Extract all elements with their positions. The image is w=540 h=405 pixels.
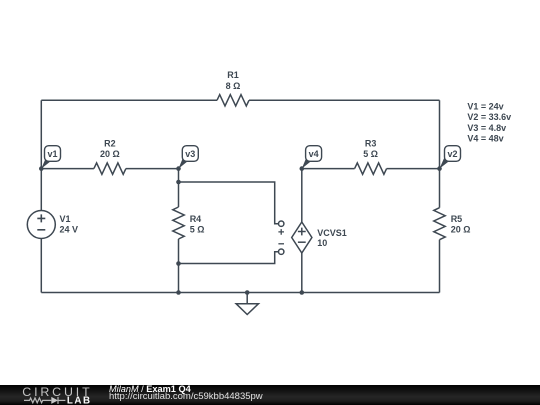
junction dot control plus tap <box>176 180 181 185</box>
wire v4-R3 <box>302 168 355 170</box>
wire top left segment <box>41 99 217 101</box>
node label v1 <box>41 146 60 169</box>
node v1 junction dot <box>39 166 44 171</box>
resistor R5 <box>434 208 445 240</box>
node v3 junction dot <box>176 166 181 171</box>
dependent source VCVS1 <box>292 222 312 253</box>
node label v2 <box>440 146 461 169</box>
ground <box>236 293 258 315</box>
VCVS control plus terminal circle <box>279 221 284 226</box>
wire R3 to v2 <box>387 168 440 170</box>
node label v3 <box>179 146 199 169</box>
resistor R4 <box>173 207 184 239</box>
wire VCVS control plus <box>179 182 279 224</box>
node v2 junction dot <box>437 166 442 171</box>
svg-text:LAB: LAB <box>67 395 92 405</box>
wire v3 column lower <box>178 239 180 293</box>
junction dot ground rail <box>245 290 250 295</box>
wire bottom <box>41 292 439 294</box>
wire v4 column to VCVS top <box>301 169 303 222</box>
CircuitLab logo diode triangle <box>51 397 58 404</box>
node label v4 <box>302 146 322 169</box>
wire right column upper <box>439 100 441 207</box>
wire top right segment <box>249 99 440 101</box>
wire VCVS control minus <box>179 252 279 264</box>
wire node row v1-R2 <box>41 168 94 170</box>
wire left column lower <box>40 239 42 293</box>
resistor R3 <box>355 163 387 174</box>
CircuitLab logo resistor-diode glyph <box>24 397 65 404</box>
junction dot control minus tap <box>176 261 181 266</box>
junction dot VCVS bottom rail <box>300 290 305 295</box>
junction dot v3 bottom rail <box>176 290 181 295</box>
voltage source V1 <box>27 211 55 239</box>
VCVS control minus sign <box>278 243 284 245</box>
wire v3 column upper <box>178 169 180 207</box>
wire left column upper <box>40 100 42 210</box>
footer title and url <box>109 385 263 401</box>
VCVS control plus sign <box>278 229 284 235</box>
footer bar <box>0 385 540 405</box>
wire right column lower <box>439 240 441 293</box>
wire R2 to v3 <box>126 168 179 170</box>
node v4 junction dot <box>300 166 305 171</box>
wire VCVS bottom to ground rail <box>301 253 303 293</box>
resistor R1 <box>217 95 249 106</box>
resistor R2 <box>94 163 126 174</box>
VCVS control minus terminal circle <box>279 249 284 254</box>
